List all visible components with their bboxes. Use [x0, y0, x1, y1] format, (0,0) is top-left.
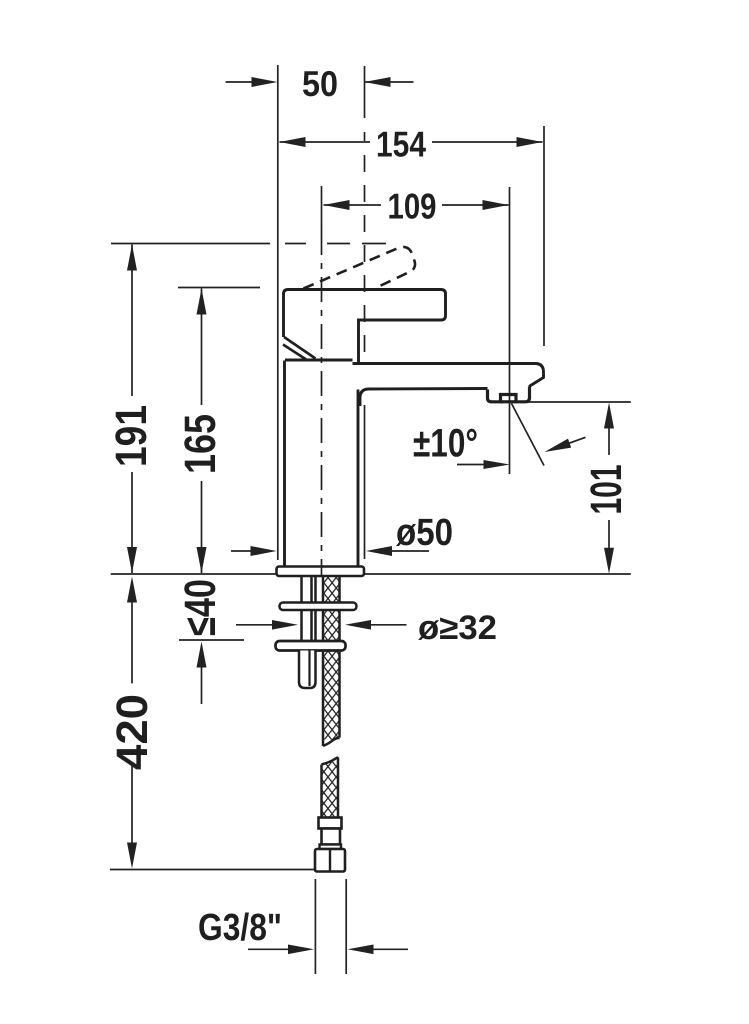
extension line x=278 (50 left / base left) [277, 65, 279, 560]
reference line y=287.5 (165 level) [178, 287, 260, 289]
hose upper piece [323, 577, 340, 740]
svg-text:G3/8": G3/8" [198, 907, 282, 949]
dimension G3/8 [314, 879, 316, 974]
svg-text:ø≥32: ø≥32 [418, 609, 497, 647]
dimension o50 (leader arrows at base) [231, 550, 252, 552]
svg-text:101: 101 [582, 465, 631, 515]
dimension le 40 [197, 642, 207, 668]
flange [277, 567, 365, 577]
nut [315, 849, 345, 872]
ferrule [319, 818, 342, 829]
spray angle line [512, 404, 545, 466]
dimension 191 [131, 245, 133, 397]
svg-text:420: 420 [108, 694, 157, 770]
reference line y=243.5 (top of open lever, 191 level) [111, 243, 270, 245]
dimension 109 [324, 204, 509, 206]
dimension 50 (top) [226, 81, 414, 83]
dimension 154 [280, 141, 543, 143]
svg-text:≤40: ≤40 [176, 579, 225, 636]
dimension 420 [127, 577, 137, 603]
reference line y=640 (max 40 thickness) [179, 639, 244, 641]
upper washer [280, 603, 357, 611]
column top [285, 359, 353, 362]
spout (white fill covers column line behind) [352, 364, 544, 390]
svg-text:109: 109 [388, 186, 437, 227]
dashed open lever [304, 247, 416, 289]
svg-text:50: 50 [302, 63, 338, 104]
dimension 101 [604, 403, 614, 429]
svg-text:154: 154 [376, 124, 426, 165]
lower washer [276, 641, 346, 651]
countertop line [111, 573, 631, 575]
centerline x=321.5 (column axis / 109 left ext) drawn over body [321, 186, 323, 230]
solid lever block [284, 290, 446, 364]
stud below washer [299, 651, 316, 689]
dimension 165 [201, 289, 203, 406]
svg-text:ø50: ø50 [396, 512, 453, 554]
collar [320, 845, 342, 850]
below counter: stud [302, 577, 316, 642]
outlet center line through spout [509, 187, 511, 474]
aerator [488, 387, 530, 402]
neck [322, 829, 341, 845]
svg-text:±10°: ±10° [413, 422, 478, 466]
dimension o>=32 [236, 624, 273, 626]
column sides [283, 361, 286, 567]
hose lower piece [322, 757, 339, 817]
svg-text:165: 165 [176, 414, 225, 474]
reference line y=402 (101 top, outlet) [527, 401, 631, 403]
bottom reference line y=869.5 (420 end) [110, 869, 314, 871]
svg-text:191: 191 [107, 405, 156, 467]
centerline x=364.5 (50 right ext) drawn over body [364, 66, 366, 118]
chamfer lines back of body [284, 337, 316, 359]
extension line x=544 (154 right) [543, 126, 545, 346]
